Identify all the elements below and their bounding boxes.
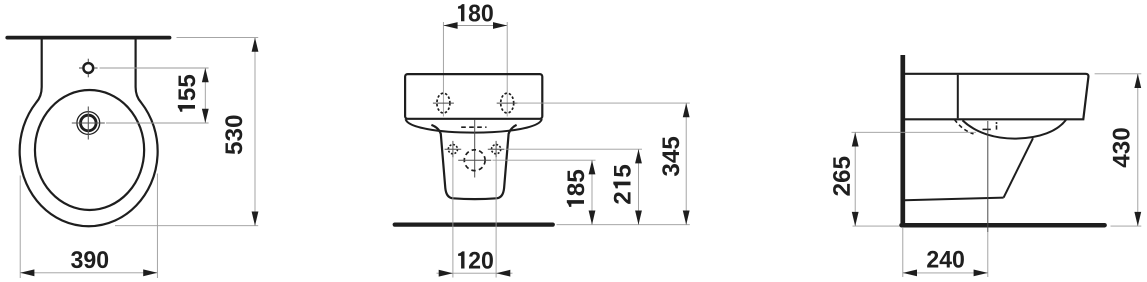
215 dimension line [638, 149, 640, 225]
155 bottom extension line [106, 122, 209, 124]
345 dimension line [685, 103, 687, 225]
inner bowl rim ellipse [35, 90, 144, 210]
bottom back edge of body [905, 198, 1004, 201]
120 dimension line with stubs [437, 272, 513, 274]
430 arrow down [1134, 212, 1141, 226]
shared bottom extension line for 185/215/345 [557, 224, 690, 226]
345 arrow up [683, 103, 690, 117]
185 arrow up [589, 160, 596, 174]
265 arrow down [852, 212, 859, 226]
180 left extension line [442, 22, 444, 117]
155 arrow down [202, 109, 209, 123]
faucet hole crosshair ticks [87, 59, 89, 63]
265 bottom extension line [853, 225, 900, 227]
vertical centerline through big hole [474, 120, 476, 178]
hidden water inlet dashes [461, 126, 486, 128]
wall line (plan) [7, 36, 169, 40]
label 180 [458, 4, 493, 21]
cistern / mounting box rectangle [405, 74, 542, 119]
side fixture outline [905, 74, 1088, 120]
120 right extension line [495, 157, 497, 278]
label 120 [458, 251, 493, 268]
bidet body outline: neck + outer bowl rim [20, 39, 158, 227]
265 top extension line [852, 131, 977, 133]
label 240 [927, 251, 964, 268]
180 dimension line [443, 25, 507, 27]
390 left extension line [19, 176, 21, 279]
180 right extension line [506, 22, 508, 117]
390 arrow left [20, 269, 34, 276]
hidden drain dashes [983, 128, 991, 130]
155 top extension line [100, 67, 209, 69]
lower body (bucket) outline [431, 125, 516, 199]
small hole left (dashed) [448, 145, 457, 154]
530 bottom extension line [115, 225, 258, 227]
530 dimension line [254, 38, 256, 226]
265 dimension line [854, 132, 856, 226]
bowl belly underside [963, 120, 1067, 139]
label 345 [662, 137, 679, 176]
drain centerline [987, 121, 989, 232]
120 left extension line [452, 157, 454, 278]
bowl rim front arc [406, 119, 542, 133]
430 arrow up [1134, 74, 1141, 88]
tapering front edge of lower body [1004, 138, 1033, 197]
240 arrow left [903, 270, 917, 277]
430 dimension line [1137, 74, 1139, 226]
label 155 [178, 75, 195, 112]
390 dimension line [20, 272, 157, 274]
label 185 [567, 170, 584, 207]
drain crosshair [72, 122, 105, 124]
label 430 [1113, 128, 1130, 167]
530 arrow up [252, 38, 259, 52]
label 530 [225, 115, 242, 154]
wall line (side) [900, 55, 905, 225]
drain hole [77, 112, 100, 135]
430 bottom extension line [1111, 225, 1142, 227]
faucet hole [83, 63, 93, 73]
345 arrow down [683, 211, 690, 225]
185 top extension line [493, 159, 596, 161]
floor line (side) [902, 223, 1105, 228]
label 265 [833, 157, 850, 196]
215 arrow down [635, 211, 642, 225]
215 top extension line [506, 148, 643, 150]
mounting hole right (dashed ellipse) [501, 93, 514, 113]
240 dimension line [903, 272, 988, 274]
floor line (front view) [395, 223, 553, 227]
265 arrow up [852, 132, 859, 146]
390 right extension line [156, 174, 158, 279]
185 dimension line [591, 160, 593, 225]
hidden trap dashed arc [955, 120, 974, 134]
530 arrow down [252, 212, 259, 226]
180 arrow right [493, 22, 507, 29]
155 arrow up [202, 68, 209, 82]
mounting hole left (dashed ellipse) [437, 93, 450, 113]
390 arrow right [143, 269, 157, 276]
180 arrow left [443, 22, 457, 29]
label 390 [71, 251, 108, 268]
joint line between mounting box and rim [957, 75, 959, 119]
430 top extension line [1095, 73, 1142, 75]
185 arrow down [589, 211, 596, 225]
155 dimension line [204, 68, 206, 123]
215 arrow up [635, 149, 642, 163]
120 arrow (outside right, points left) [496, 270, 510, 277]
240 arrow right [974, 270, 988, 277]
small hole right (dashed) [492, 145, 501, 154]
label 215 [613, 165, 630, 204]
240 left extension line [902, 228, 904, 277]
120 arrow (outside left, points right) [439, 270, 453, 277]
240 right extension line [987, 232, 989, 277]
530 top extension line [177, 37, 259, 39]
345 top extension line [517, 102, 690, 104]
big center hole (dashed) [464, 150, 485, 171]
